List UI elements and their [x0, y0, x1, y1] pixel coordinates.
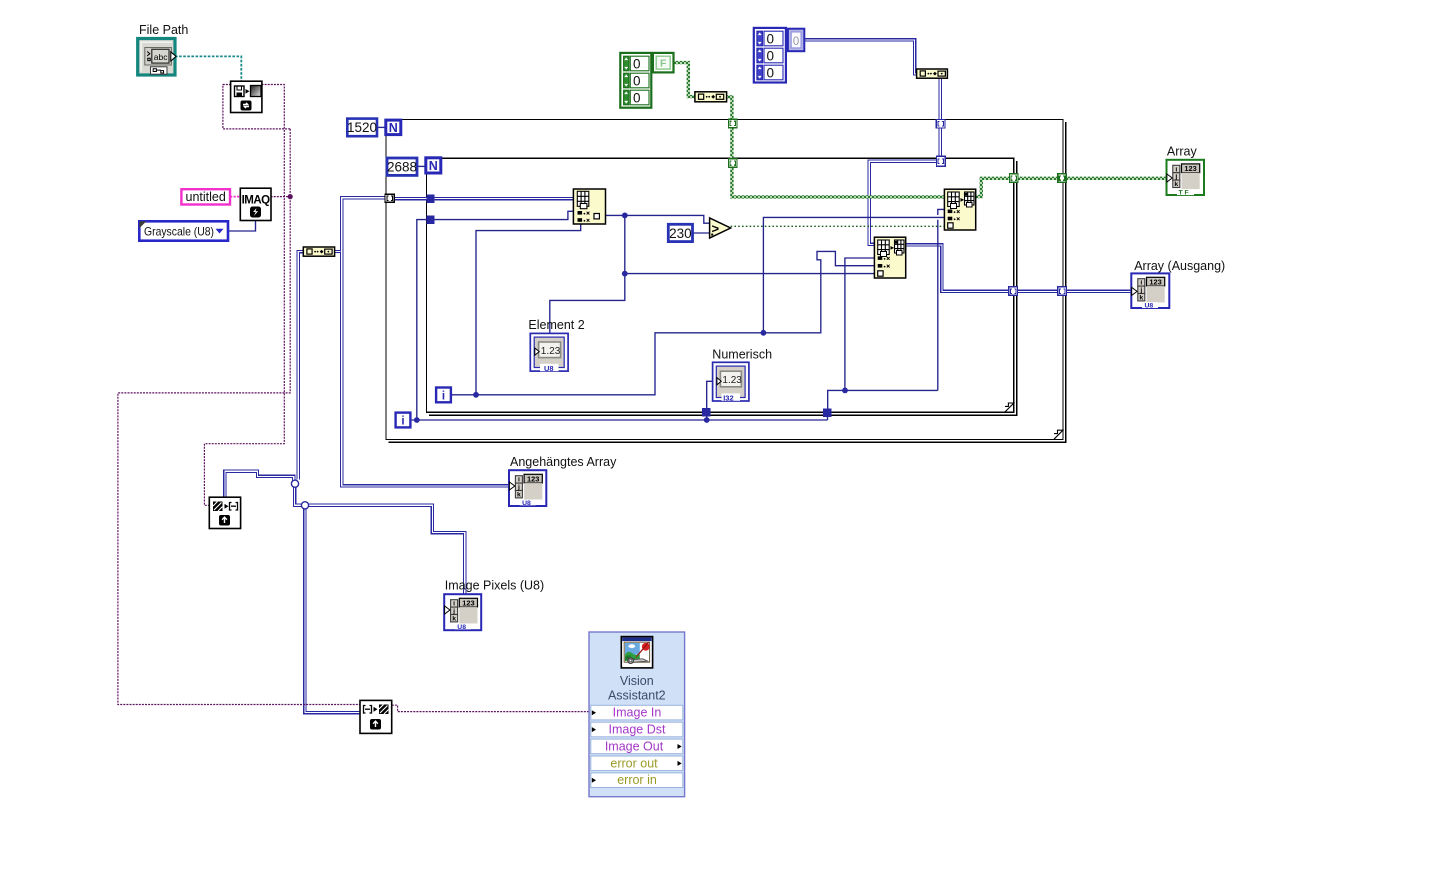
constant: boolean F element of green array: [653, 53, 674, 73]
svg-text:i: i: [1175, 166, 1177, 173]
wire: untitled string constant to IMAQ Create (pink dashed): [230, 196, 240, 198]
svg-text:1.23: 1.23: [722, 375, 742, 386]
wire: inner i terminal to x=821 riser into Replace 2 index input: [451, 251, 875, 394]
svg-text:U8: U8: [457, 624, 466, 631]
svg-text:N: N: [429, 159, 438, 173]
icon: Vision Assistant thumbnail: [621, 637, 652, 668]
wire: build-array 1 output down through top green tunnels: [727, 97, 732, 163]
wire: 2D-array double, inner-left tunnel A to Index Array input: [434, 197, 574, 200]
inner loop bottom-right fold: [1005, 403, 1014, 412]
tunnel: outer-right green tunnel []: [1058, 174, 1067, 183]
svg-text:k: k: [517, 492, 521, 499]
tunnel: inner-left solid tunnel B (outer i): [427, 216, 435, 224]
constant: 3D I32 array (blue shell with three index spinners): [754, 28, 786, 83]
tunnel: inner-right blue tunnel []: [1009, 287, 1018, 295]
svg-text:Array (Ausgang): Array (Ausgang): [1134, 259, 1225, 273]
svg-text:IMAQ: IMAQ: [242, 195, 271, 207]
svg-text:Numerisch: Numerisch: [712, 347, 772, 361]
wire: junction circle 1 up to build-array 3: [298, 252, 304, 480]
wire: branch at x=763 up to Replace 1 index j input: [763, 217, 944, 332]
wire: boolean dotted from greater-than to Replace 1 element input: [731, 225, 945, 227]
node: Replace Array Subset 1 (boolean array): [944, 189, 975, 230]
tunnel: outer-top green tunnel []: [728, 119, 737, 128]
svg-text:Angehängtes Array: Angehängtes Array: [510, 455, 617, 469]
svg-text:1.23: 1.23: [541, 346, 561, 357]
svg-text:j: j: [1174, 174, 1177, 181]
tunnel: outer-left indexing tunnel []: [385, 194, 394, 202]
wire: image wire loop from ReadFile image-in back to IMAQ Create (purple dashed): [223, 85, 290, 129]
svg-text:Array: Array: [1167, 144, 1198, 158]
row: error out: [591, 756, 683, 771]
indicator: Angehaengtes Array (3D U8 array): [509, 470, 546, 507]
svg-text:abc: abc: [154, 52, 168, 62]
svg-text:k: k: [1174, 181, 1178, 188]
svg-text:Image Out: Image Out: [605, 739, 664, 753]
wire: branch up to Replace 2 index i input: [845, 258, 875, 390]
svg-text:Assistant2: Assistant2: [608, 688, 666, 702]
indicator: Array (3D boolean array): [1167, 160, 1205, 197]
wire: junction circle 2 down to ArrayToImage input: [305, 509, 360, 713]
outer for-loop (N=1520) border: [386, 120, 1067, 444]
wire: Index Array output to greater-than node: [605, 215, 710, 223]
tunnel: outer-right blue tunnel []: [1058, 287, 1067, 295]
junction: dot on inner i wire: [473, 392, 479, 398]
wire: outer i into inner-bottom tunnel 2: [827, 414, 829, 420]
svg-text:j: j: [517, 484, 520, 491]
control: File Path (path control terminal): [138, 39, 176, 76]
node: build-array 3 (2D array): [303, 247, 334, 256]
node: Replace Array Subset 2 (numeric array): [874, 237, 905, 278]
svg-text:File Path: File Path: [139, 23, 188, 37]
svg-text:0: 0: [793, 36, 799, 48]
constant: Grayscale (U8) enum: [139, 221, 228, 240]
wire: 230 constant to greater-than node: [693, 232, 711, 234]
svg-text:123: 123: [1184, 164, 1196, 173]
terminal: inner loop N: [426, 158, 441, 173]
wire: 1520 constant to outer N terminal: [377, 126, 386, 128]
indicator: Array (Ausgang) (3D U8 array): [1131, 273, 1169, 309]
wire: green vertical inside inner loop to Replace 1 array input: [732, 167, 945, 197]
row: error in: [591, 773, 683, 788]
terminal: inner loop i: [436, 388, 451, 403]
terminal: outer loop N: [386, 120, 401, 135]
wire: ArrayToImage image out to Vision Assistant Image In: [392, 705, 590, 711]
wire: 2D-array double, outer-left tunnel to inner-left tunnel: [394, 197, 427, 200]
tunnel: inner-top green tunnel []: [728, 159, 737, 168]
svg-text:i: i: [442, 391, 445, 403]
wire: 2688 constant to inner N terminal: [417, 165, 426, 167]
junction: dot on outer i wire below tunnel 1: [704, 417, 710, 423]
svg-text:I32: I32: [723, 393, 733, 402]
row: Image In: [591, 705, 683, 720]
wire: Replace 1 output to right green tunnels to Array indicator: [976, 178, 1168, 196]
tunnel: inner-top blue tunnel []: [936, 156, 945, 166]
svg-text:Image In: Image In: [613, 706, 662, 720]
node: IMAQ ArrayToImage: [360, 700, 392, 733]
tunnel: inner-right green tunnel []: [1010, 174, 1019, 183]
wire: image wire down-left to ArrayToImage and Vision Assistant: [118, 129, 360, 705]
constant: untitled (string): [181, 189, 230, 204]
svg-text:j: j: [1139, 287, 1142, 294]
svg-text:i: i: [401, 416, 404, 428]
wire: inner-top blue tunnel to Replace Array Subset 2 array input: [869, 161, 937, 244]
wire: x=938 riser to Replace 1 index i input (gap at crossing): [937, 220, 939, 391]
svg-text:k: k: [452, 616, 456, 623]
svg-text:U8: U8: [522, 500, 531, 507]
junction: open circle 2 on 2D-array net: [301, 502, 308, 509]
wire: IMAQ Create image out to purple junction: [271, 196, 291, 198]
node: Vision Assistant2 express VI: [589, 632, 685, 797]
junction: dot on pixel-value branch: [622, 271, 628, 277]
svg-text:0: 0: [633, 90, 641, 105]
wire: branch down from Index Array output: [625, 215, 875, 273]
svg-text:i: i: [518, 477, 520, 484]
junction: dot on outer i wire at x=417: [414, 417, 420, 423]
wire: 3D-array const 0 to build-array 2: [804, 40, 917, 74]
wire: inner-bottom tunnel 2 up to y=390 run: [828, 390, 938, 409]
svg-text:2688: 2688: [387, 159, 417, 174]
svg-text:123: 123: [527, 475, 539, 484]
junction: dot at Index Array output: [622, 213, 628, 219]
outer loop bottom-right fold: [1054, 430, 1063, 439]
svg-text:0: 0: [767, 48, 775, 63]
svg-text:U8: U8: [1145, 303, 1154, 310]
wire: ReadFile image out down to ImageToArray: [204, 85, 284, 506]
node: IMAQ ImageToArray: [209, 497, 240, 528]
indicator: Image Pixels (U8) (2D U8 array): [444, 594, 481, 631]
svg-text:i: i: [453, 601, 455, 608]
junction: open circle 1 on 2D-array net: [291, 480, 298, 487]
svg-text:230: 230: [669, 226, 692, 241]
svg-text:j: j: [452, 608, 455, 615]
svg-text:0: 0: [767, 65, 775, 80]
node: IMAQ Create U2: [240, 188, 271, 220]
indicator: Element 2 (U8 scalar): [530, 333, 568, 372]
tunnel: inner-bottom solid tunnel 2 (outer i to y=390 run): [823, 408, 832, 417]
svg-text:Image Pixels (U8): Image Pixels (U8): [445, 579, 544, 593]
constant: 1520: [347, 119, 377, 137]
wire: build-array 3 output to outer-left tunnel: [335, 198, 386, 252]
wire: Grayscale enum to IMAQ Create: [228, 221, 256, 232]
wire: junction circle 2 right to Image Pixels (U8) indicator: [308, 505, 465, 594]
svg-text:123: 123: [462, 599, 474, 608]
wire: Replace Array Subset 2 output to right tunnels to Array (Ausgang): [906, 245, 1132, 292]
svg-text:0: 0: [767, 31, 775, 46]
wire: branch up through inner-left tunnel B: [417, 220, 427, 420]
node: build-array 2 (numeric): [917, 69, 948, 78]
wire: boolean F constant to build-array 1 (green checkered): [674, 63, 696, 97]
wire: branch down-left to Element 2 indicator: [550, 274, 625, 334]
svg-text:i: i: [1140, 280, 1142, 287]
svg-text:Image Dst: Image Dst: [609, 723, 666, 737]
node: build-array 1 (boolean): [695, 92, 727, 102]
wire: build-array 2 output down through top tunnels: [939, 78, 942, 160]
svg-text:N: N: [389, 121, 398, 135]
row: Image Dst: [591, 722, 683, 737]
wire: File Path control to IMAQ ReadFile (teal dashed path wire): [175, 56, 241, 81]
svg-text:Element 2: Element 2: [528, 318, 584, 332]
constant: numeric 0 element of blue array: [788, 29, 804, 52]
inner for-loop (N=2688) border: [427, 158, 1018, 416]
node: Index Array: [573, 189, 605, 224]
node: Greater? comparison: [710, 218, 731, 238]
indicator: Numerisch (I32 scalar): [713, 362, 749, 402]
tunnel: inner-bottom solid tunnel 1 (outer i to Numerisch): [702, 408, 711, 417]
constant: 3D boolean array (green shell with three index spinners): [620, 53, 651, 108]
row: Image Out: [591, 739, 683, 754]
wire: branch inner i up to Index Array lower index input: [476, 225, 581, 395]
tunnel: inner-left solid tunnel A (2D array): [427, 195, 435, 203]
svg-text:error out: error out: [610, 756, 658, 770]
node: IMAQ ReadFile U1: [231, 81, 262, 112]
svg-text:>: >: [712, 221, 720, 236]
svg-text:error in: error in: [617, 773, 657, 787]
svg-text:T F: T F: [1179, 190, 1189, 197]
wire: junction circle 1 down to junction circle 2: [295, 487, 302, 505]
svg-text:Vision: Vision: [620, 674, 654, 688]
svg-text:123: 123: [1149, 278, 1161, 287]
terminal: outer loop i: [396, 413, 411, 428]
junction: dot on y=390 run at x=845: [842, 388, 848, 394]
constant: 230: [668, 224, 692, 241]
svg-text:Grayscale (U8): Grayscale (U8): [144, 225, 214, 239]
wire: outer i terminal along y=420: [411, 419, 828, 421]
svg-text:k: k: [1139, 295, 1143, 302]
wire: outer i into inner-bottom tunnel 1: [706, 414, 708, 420]
svg-text:U8: U8: [544, 364, 554, 373]
wire: inner-left tunnel B to Index Array upper index input: [434, 211, 574, 219]
wire: inner-bottom tunnel 1 to Numerisch indicator: [707, 381, 713, 409]
svg-text:untitled: untitled: [186, 190, 226, 204]
svg-text:0: 0: [633, 56, 641, 71]
tunnel: outer-top blue tunnel []: [936, 120, 945, 129]
constant: 2688: [387, 158, 417, 175]
junction: purple image wire dot: [288, 194, 293, 199]
junction: dot on y=333 run at x=763: [761, 330, 767, 336]
svg-text:0: 0: [633, 73, 641, 88]
wire: ImageToArray output up to build-array 3 input: [225, 471, 294, 497]
svg-text:1520: 1520: [347, 120, 377, 135]
wire: build-array 3 output down to Angehaengtes Array indicator: [342, 252, 510, 486]
svg-text:F: F: [660, 58, 667, 70]
